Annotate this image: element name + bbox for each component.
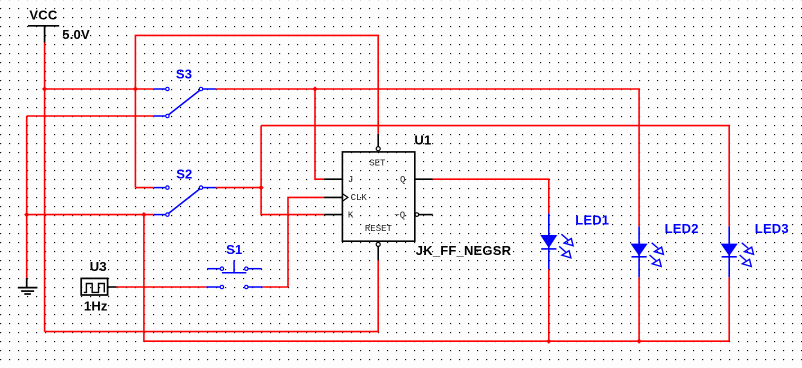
svg-text:LED3: LED3 bbox=[755, 221, 789, 236]
svg-text:1Hz: 1Hz bbox=[84, 299, 108, 314]
svg-text:U3: U3 bbox=[90, 259, 107, 274]
svg-text:RESET: RESET bbox=[365, 224, 393, 234]
svg-text:VCC: VCC bbox=[29, 8, 57, 23]
svg-text:K: K bbox=[348, 210, 354, 220]
svg-text:CLK: CLK bbox=[351, 193, 368, 203]
svg-text:S1: S1 bbox=[226, 242, 242, 257]
svg-text:JK_FF_NEGSR: JK_FF_NEGSR bbox=[416, 243, 512, 258]
svg-text:LED2: LED2 bbox=[665, 221, 699, 236]
svg-text:J: J bbox=[348, 175, 353, 185]
svg-text:S2: S2 bbox=[176, 167, 192, 182]
svg-text:Q: Q bbox=[400, 175, 405, 185]
svg-text:SET: SET bbox=[369, 158, 386, 168]
svg-text:S3: S3 bbox=[176, 67, 192, 82]
svg-text:~Q: ~Q bbox=[394, 210, 405, 220]
svg-text:5.0V: 5.0V bbox=[62, 27, 90, 42]
svg-text:U1: U1 bbox=[414, 133, 431, 148]
svg-text:LED1: LED1 bbox=[575, 212, 609, 227]
